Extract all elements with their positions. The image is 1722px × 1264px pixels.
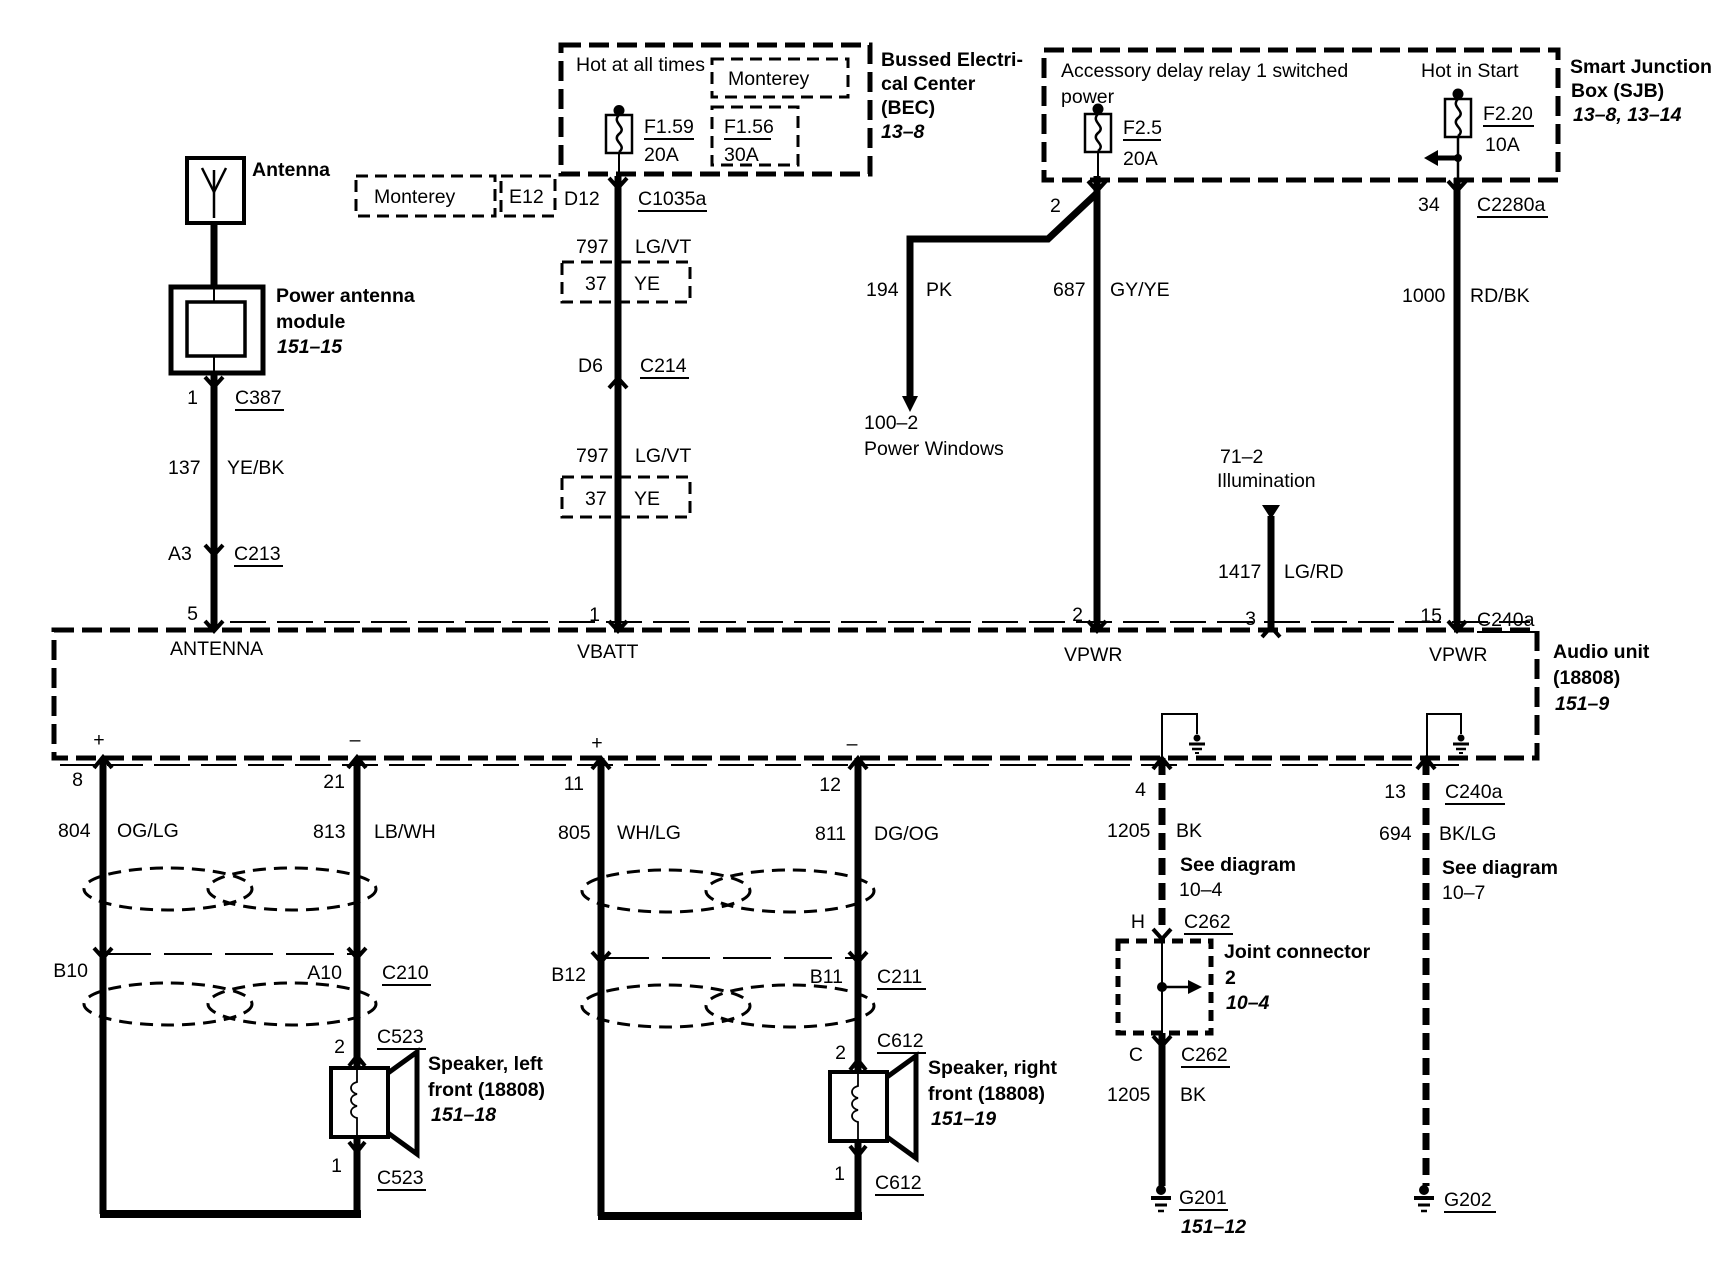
svg-text:front (18808): front (18808): [428, 1079, 545, 1101]
svg-text:BK/LG: BK/LG: [1439, 823, 1496, 845]
Smart Junction Box: [1044, 50, 1558, 180]
svg-text:1205: 1205: [1107, 1084, 1151, 1106]
svg-text:LG/VT: LG/VT: [635, 445, 691, 467]
wire speaker RF pin 1: [855, 1141, 862, 1216]
svg-text:Power Windows: Power Windows: [864, 438, 1004, 460]
svg-text:10–4: 10–4: [1179, 879, 1223, 901]
svg-text:D6: D6: [578, 355, 603, 377]
svg-text:VPWR: VPWR: [1064, 644, 1123, 666]
twisted pair row2 left: [84, 983, 376, 1025]
svg-text:GY/YE: GY/YE: [1110, 279, 1170, 301]
svg-text:+: +: [93, 729, 104, 751]
svg-text:13–8: 13–8: [881, 121, 925, 143]
svg-text:813: 813: [313, 821, 346, 843]
svg-text:+: +: [591, 732, 602, 754]
wire 805 WH/LG pin 11: [598, 758, 605, 1216]
connector arrow C523 bottom: [349, 1142, 365, 1152]
svg-text:F1.59: F1.59: [644, 116, 694, 138]
illumination feed arrow: [1262, 505, 1280, 519]
internal ground left: [1162, 714, 1197, 757]
wire 1205 BK to ground: [1159, 1033, 1166, 1186]
wire speaker RF return loop: [598, 1212, 862, 1220]
svg-text:C523: C523: [377, 1026, 424, 1048]
svg-text:F2.20: F2.20: [1483, 103, 1533, 125]
connector arrow pin 15: [1448, 621, 1466, 631]
svg-text:–: –: [350, 729, 361, 751]
wire 804 OG/LG pin 8: [100, 758, 107, 1214]
svg-text:B10: B10: [53, 960, 88, 982]
svg-text:power: power: [1061, 86, 1115, 108]
svg-text:805: 805: [558, 822, 591, 844]
wire branch 194 PK: [910, 193, 1097, 398]
svg-text:OG/LG: OG/LG: [117, 820, 179, 842]
wire module to audio unit pin 5: [211, 375, 218, 630]
svg-text:VPWR: VPWR: [1429, 644, 1488, 666]
svg-text:LB/WH: LB/WH: [374, 821, 436, 843]
connector arrow pin 5: [205, 621, 223, 631]
svg-text:VBATT: VBATT: [577, 641, 638, 663]
fuse F2.20 pigtail: [1457, 137, 1460, 178]
Bussed Electrical Center box: [561, 45, 870, 174]
svg-text:4: 4: [1135, 779, 1146, 801]
svg-text:ANTENNA: ANTENNA: [170, 638, 263, 660]
svg-text:151–15: 151–15: [277, 336, 343, 358]
connector arrow C387: [205, 377, 223, 387]
svg-text:C210: C210: [382, 962, 429, 984]
svg-text:See diagram: See diagram: [1442, 857, 1558, 879]
svg-text:E12: E12: [509, 186, 544, 208]
svg-text:C214: C214: [640, 355, 687, 377]
svg-text:100–2: 100–2: [864, 412, 918, 434]
connector arrow pin 11: [592, 758, 610, 769]
svg-text:1000: 1000: [1402, 285, 1446, 307]
wire 1417 LG/RD: [1268, 516, 1275, 630]
svg-text:D12: D12: [564, 188, 600, 210]
connector arrow C262 H: [1153, 929, 1171, 939]
connector arrow pin 1: [609, 621, 627, 631]
connector arrow pin 2: [1088, 621, 1106, 631]
connector arrow C262 C: [1153, 1036, 1171, 1046]
fuse F2.20 10A: [1445, 99, 1471, 137]
joint connector box: [1118, 941, 1211, 1033]
svg-text:YE: YE: [634, 273, 660, 295]
connector arrow C214: [609, 378, 627, 388]
wire VPWR 1000 RD/BK: [1454, 178, 1461, 630]
svg-text:LG/RD: LG/RD: [1284, 561, 1344, 583]
svg-text:5: 5: [187, 603, 198, 625]
svg-text:11: 11: [564, 773, 584, 795]
wire fuse F1.59 pigtail: [618, 153, 620, 176]
svg-text:(18808): (18808): [1553, 667, 1620, 689]
svg-text:Monterey: Monterey: [374, 186, 456, 208]
svg-text:C612: C612: [877, 1030, 924, 1052]
svg-text:15: 15: [1420, 605, 1442, 627]
connector arrow C612 bottom: [850, 1146, 866, 1156]
svg-text:13–8, 13–14: 13–8, 13–14: [1573, 104, 1682, 126]
svg-text:Bussed Electri-: Bussed Electri-: [881, 49, 1023, 71]
svg-text:module: module: [276, 311, 345, 333]
wire 813 LB/WH pin 21: [354, 758, 361, 1068]
svg-text:cal Center: cal Center: [881, 73, 976, 95]
ground G201: [1156, 1185, 1166, 1195]
svg-text:1: 1: [187, 387, 198, 409]
svg-text:YE/BK: YE/BK: [227, 457, 284, 479]
svg-text:C2280a: C2280a: [1477, 194, 1545, 216]
svg-text:Hot in Start: Hot in Start: [1421, 60, 1519, 82]
fuse F2.5 pigtail: [1097, 152, 1099, 176]
svg-text:71–2: 71–2: [1220, 446, 1263, 468]
connector arrow C523 top: [349, 1056, 365, 1066]
svg-text:WH/LG: WH/LG: [617, 822, 681, 844]
Monterey option box (in BEC): [712, 59, 848, 97]
audio unit box: [230, 621, 1530, 623]
connector C210 inline: [103, 953, 357, 955]
connector arrow pin 8: [94, 757, 112, 768]
twisted pair row1 right: [582, 870, 874, 912]
ground G202: [1419, 1185, 1429, 1195]
svg-text:C: C: [1129, 1044, 1143, 1066]
svg-text:C387: C387: [235, 387, 282, 409]
svg-text:A3: A3: [168, 543, 192, 565]
twisted pair row1 left: [84, 868, 376, 910]
svg-text:See diagram: See diagram: [1180, 854, 1296, 876]
svg-text:1205: 1205: [1107, 820, 1151, 842]
wire antenna to module: [211, 223, 218, 287]
svg-text:Hot at all times: Hot at all times: [576, 54, 705, 76]
svg-text:10–7: 10–7: [1442, 882, 1485, 904]
svg-text:Monterey: Monterey: [728, 68, 810, 90]
wire speaker LF pin 1: [354, 1137, 361, 1214]
svg-text:797: 797: [576, 236, 609, 258]
twisted pair row2 right: [582, 985, 874, 1027]
wire speaker LF return loop: [100, 1210, 361, 1218]
svg-text:LG/VT: LG/VT: [635, 236, 691, 258]
svg-text:2: 2: [334, 1036, 345, 1058]
svg-text:C523: C523: [377, 1167, 424, 1189]
branch arrow left in SJB: [1436, 156, 1458, 161]
svg-text:Box (SJB): Box (SJB): [1571, 80, 1664, 102]
svg-text:C1035a: C1035a: [638, 188, 706, 210]
connector arrow pin 2 SJB: [1088, 181, 1106, 191]
svg-text:34: 34: [1418, 194, 1440, 216]
option box 37 YE lower: [562, 477, 690, 517]
svg-text:F1.56: F1.56: [724, 116, 774, 138]
svg-text:(BEC): (BEC): [881, 97, 935, 119]
svg-text:Smart Junction: Smart Junction: [1570, 56, 1712, 78]
svg-text:1417: 1417: [1218, 561, 1261, 583]
connector arrow C612 top: [850, 1060, 866, 1070]
svg-text:20A: 20A: [644, 144, 679, 166]
svg-text:DG/OG: DG/OG: [874, 823, 939, 845]
connector arrow pin 21: [348, 757, 366, 768]
wire VBATT feed 797 LG/VT: [615, 176, 622, 630]
svg-text:Illumination: Illumination: [1217, 470, 1316, 492]
svg-text:151–18: 151–18: [431, 1104, 496, 1126]
svg-text:Accessory delay relay 1 switch: Accessory delay relay 1 switched: [1061, 60, 1348, 82]
svg-text:PK: PK: [926, 279, 952, 301]
svg-text:2: 2: [1050, 195, 1061, 217]
connector C211 inline: [601, 957, 858, 959]
svg-text:12: 12: [819, 774, 841, 796]
antenna symbol box: [187, 158, 244, 223]
svg-text:2: 2: [1225, 967, 1236, 989]
svg-text:C612: C612: [875, 1172, 922, 1194]
svg-text:10A: 10A: [1485, 134, 1520, 156]
svg-text:G202: G202: [1444, 1189, 1492, 1211]
internal ground right: [1427, 714, 1461, 757]
svg-text:21: 21: [323, 771, 345, 793]
svg-text:BK: BK: [1180, 1084, 1206, 1106]
fuse F1.56 30A option box: [712, 107, 798, 165]
svg-text:8: 8: [72, 769, 83, 791]
svg-text:151–12: 151–12: [1181, 1216, 1246, 1238]
wire 1205 BK pin 4 dashed: [1159, 758, 1166, 932]
connector arrow C213: [205, 545, 223, 555]
svg-text:B12: B12: [551, 964, 586, 986]
svg-text:37: 37: [585, 488, 607, 510]
E12 box: [501, 176, 555, 216]
svg-text:137: 137: [168, 457, 201, 479]
svg-text:Joint connector: Joint connector: [1224, 941, 1371, 963]
svg-text:151–9: 151–9: [1555, 693, 1609, 715]
svg-text:194: 194: [866, 279, 899, 301]
svg-text:C262: C262: [1181, 1044, 1228, 1066]
Monterey option box (standalone): [356, 176, 495, 216]
fuse F2.5 20A: [1085, 114, 1111, 152]
connector arrow pin 12: [849, 758, 867, 769]
svg-text:797: 797: [576, 445, 609, 467]
speaker right front symbol: [830, 1056, 916, 1158]
svg-text:Antenna: Antenna: [252, 159, 330, 181]
connector arrow pin 3: [1262, 627, 1280, 637]
svg-text:Speaker, left: Speaker, left: [428, 1053, 543, 1075]
svg-text:1: 1: [331, 1155, 342, 1177]
power antenna module: [171, 287, 263, 373]
svg-text:Power antenna: Power antenna: [276, 285, 415, 307]
connector arrow pin 13: [1417, 758, 1435, 769]
svg-text:3: 3: [1245, 608, 1256, 630]
svg-text:151–19: 151–19: [931, 1108, 996, 1130]
svg-text:H: H: [1131, 911, 1145, 933]
svg-text:10–4: 10–4: [1226, 992, 1270, 1014]
svg-text:RD/BK: RD/BK: [1470, 285, 1530, 307]
svg-text:–: –: [847, 733, 858, 755]
svg-text:694: 694: [1379, 823, 1412, 845]
connector arrow pin 4: [1153, 758, 1171, 769]
wire 694 BK/LG pin 13 dashed: [1423, 758, 1430, 1186]
svg-text:YE: YE: [634, 488, 660, 510]
wire 811 DG/OG pin 12: [855, 758, 862, 1072]
svg-text:37: 37: [585, 273, 607, 295]
svg-text:BK: BK: [1176, 820, 1202, 842]
svg-text:F2.5: F2.5: [1123, 117, 1162, 139]
svg-text:13: 13: [1384, 781, 1406, 803]
connector arrow C1035a: [609, 178, 627, 188]
option box 37 YE: [562, 262, 690, 302]
svg-text:C211: C211: [877, 966, 922, 988]
joint connector internal bus: [1161, 941, 1163, 1033]
svg-text:Audio unit: Audio unit: [1553, 641, 1650, 663]
connector arrow C2280a: [1448, 181, 1466, 191]
svg-text:Speaker, right: Speaker, right: [928, 1057, 1057, 1079]
svg-text:A10: A10: [307, 962, 342, 984]
svg-text:2: 2: [835, 1042, 846, 1064]
svg-text:811: 811: [815, 823, 846, 845]
svg-text:1: 1: [834, 1163, 845, 1185]
svg-text:804: 804: [58, 820, 91, 842]
wire VPWR 687 GY/YE: [1094, 176, 1101, 630]
svg-text:C262: C262: [1184, 911, 1231, 933]
svg-text:G201: G201: [1179, 1187, 1227, 1209]
fuse F1.59 20A: [606, 115, 632, 153]
svg-text:687: 687: [1053, 279, 1086, 301]
svg-text:C213: C213: [234, 543, 281, 565]
svg-text:C240a: C240a: [1445, 781, 1503, 803]
svg-text:front (18808): front (18808): [928, 1083, 1045, 1105]
speaker left front symbol: [331, 1052, 417, 1154]
svg-text:30A: 30A: [724, 144, 759, 166]
svg-text:20A: 20A: [1123, 148, 1158, 170]
